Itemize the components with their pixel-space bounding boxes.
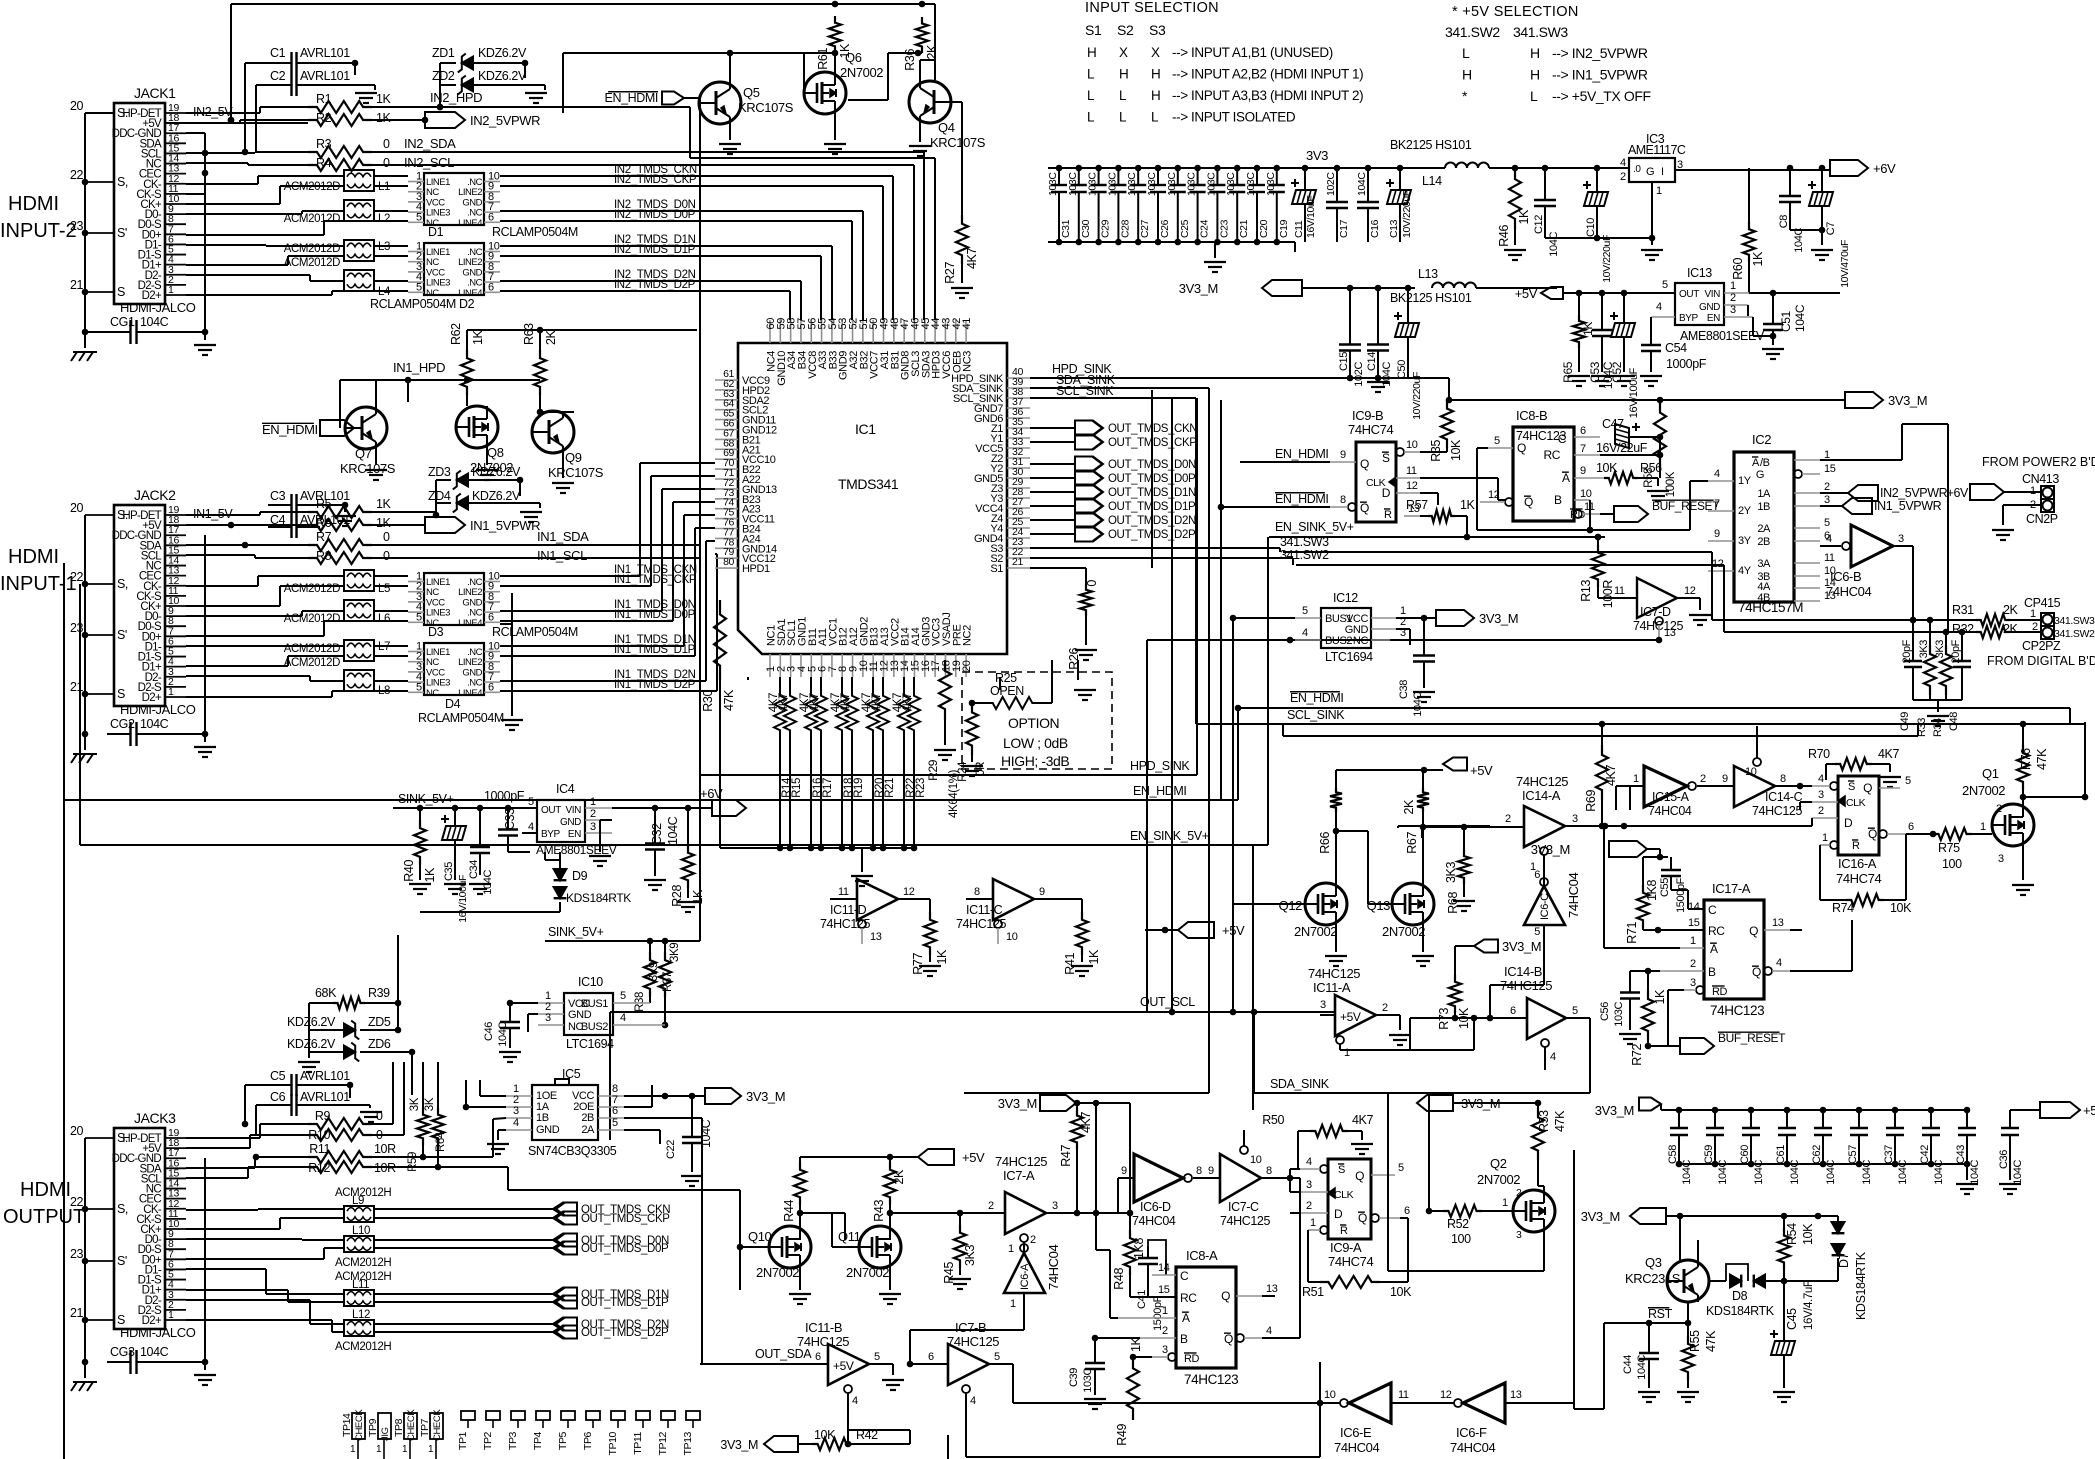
svg-text:0: 0 (376, 1109, 383, 1123)
wire IC11-B ctrl to R42 node (845, 1412, 852, 1447)
wire IC8-A A (1096, 1213, 1118, 1318)
wire IC16-A CLK wire (1800, 802, 1812, 810)
choke L6 ACM2012D (284, 600, 390, 625)
svg-text:IN1_SCL: IN1_SCL (537, 548, 587, 563)
net flag BUF_RESET at IC17 (1668, 1031, 1786, 1054)
svg-text:H: H (1087, 45, 1096, 60)
svg-text:10: 10 (1745, 766, 1757, 778)
capacitor CG2 104C (107, 717, 208, 746)
svg-text:R70: R70 (1808, 747, 1830, 761)
svg-text:KDS184RTK: KDS184RTK (566, 891, 631, 905)
svg-text:IC11-A: IC11-A (1313, 980, 1351, 995)
svg-text:R56: R56 (1640, 461, 1662, 475)
svg-text:10V/220uF: 10V/220uF (1601, 235, 1613, 283)
svg-text:2: 2 (1818, 805, 1824, 817)
net flag 3V3_M at Q2 (1417, 1095, 1541, 1111)
svg-text:3: 3 (1306, 1179, 1312, 1191)
svg-text:CHECK: CHECK (354, 1409, 365, 1441)
svg-text:H: H (1151, 88, 1160, 103)
svg-text:74HC04: 74HC04 (1132, 1214, 1176, 1228)
svg-text:4K7: 4K7 (1079, 1112, 1093, 1133)
svg-text:5: 5 (1534, 926, 1540, 938)
label IN1_SDA (537, 529, 589, 544)
wire R4 to IC1 (372, 165, 914, 320)
svg-text:341.SW3: 341.SW3 (1280, 535, 1329, 549)
resistor R6 1K (308, 516, 392, 531)
svg-text:4K7: 4K7 (1604, 765, 1618, 786)
wire IC5 right pins (624, 1085, 702, 1364)
svg-text:G: G (1646, 166, 1654, 178)
svg-text:5: 5 (1494, 435, 1500, 447)
svg-text:0: 0 (1085, 580, 1099, 587)
svg-text:1: 1 (1502, 1197, 1508, 1209)
resistor R37 3K9 (659, 941, 681, 1028)
svg-text:104C: 104C (1861, 1160, 1873, 1185)
IC IC3 AME1117C (1620, 132, 1830, 197)
svg-text:ZD2: ZD2 (432, 69, 455, 83)
label OPTION LOW 0dB HIGH -3dB (1001, 715, 1069, 769)
svg-text:1: 1 (1008, 1243, 1014, 1255)
svg-text:H: H (1462, 67, 1472, 83)
resistor R69 4K7 (1584, 724, 1618, 829)
svg-text:R29: R29 (926, 759, 940, 781)
svg-text:D4: D4 (445, 697, 461, 711)
svg-text:104C: 104C (140, 1345, 169, 1359)
capacitor C55 1500pF (1659, 857, 1704, 913)
label EN_HDMI lower (64, 563, 1238, 800)
svg-text:CP2PZ: CP2PZ (2022, 639, 2061, 653)
svg-text:LINE4: LINE4 (458, 218, 482, 229)
label IN1_5V (193, 507, 233, 521)
svg-text:103C: 103C (1613, 1002, 1625, 1027)
svg-text:3K3: 3K3 (963, 1245, 977, 1266)
svg-text:INPUT-2: INPUT-2 (0, 220, 77, 242)
svg-text:5: 5 (416, 211, 422, 223)
svg-text:S': S' (117, 226, 127, 240)
resistor R63 2K (522, 323, 558, 395)
svg-text:104C: 104C (1356, 172, 1368, 196)
buffer IC11-D 74HC125 (820, 879, 930, 944)
IC IC2 74HC157M (1708, 432, 1836, 615)
resistor R70 4K7 (1808, 747, 1901, 787)
capacitor C53 104C (1588, 293, 1615, 389)
svg-text:IC1: IC1 (855, 421, 876, 437)
svg-text:C33: C33 (503, 808, 517, 830)
svg-text:C49: C49 (1899, 712, 1911, 731)
clamp diode D3 RCLAMP0504M (408, 571, 578, 640)
svg-text:2: 2 (1996, 803, 2002, 815)
svg-text:8: 8 (1780, 773, 1786, 785)
resistor R68 3K3 (1444, 827, 1475, 914)
svg-text:6: 6 (1908, 821, 1914, 833)
resistor R7 0 (308, 530, 390, 551)
svg-text:Q: Q (1224, 1332, 1233, 1346)
svg-text:C13: C13 (1388, 219, 1400, 238)
resistor R29 4K64(1%) (926, 660, 960, 818)
svg-text:1: 1 (1822, 832, 1828, 844)
svg-text:2: 2 (1162, 1325, 1168, 1337)
zener ZD4 KDZ6.2V (428, 489, 540, 512)
svg-text:S: S (117, 1313, 125, 1327)
svg-text:OUT_TMDS_D2P: OUT_TMDS_D2P (581, 1327, 669, 1339)
label IN2_5V (165, 105, 308, 123)
text FROM DIGITAL B'D (1987, 654, 2095, 668)
svg-text:74HC74: 74HC74 (1836, 871, 1881, 886)
svg-text:R46: R46 (1497, 225, 1511, 247)
svg-text:SN74CB3Q3305: SN74CB3Q3305 (528, 1144, 617, 1158)
diode D9 KDS184RTK (420, 852, 631, 912)
capacitor bank C19-C31 103C on 3V3 (1047, 165, 1295, 246)
svg-text:20pF: 20pF (1901, 639, 1913, 663)
wire top rail (228, 4, 935, 123)
svg-text:1K: 1K (376, 92, 392, 106)
svg-text:C28: C28 (1119, 219, 1131, 238)
wire R62 R63 tops (467, 327, 697, 350)
svg-text:2: 2 (1730, 292, 1736, 304)
svg-text:10: 10 (1250, 1154, 1262, 1166)
label HDMI INPUT-2 (0, 193, 77, 242)
wire IC7-C to IC9-A S (1226, 1169, 1300, 1178)
diode D7 KDS184RTK (1784, 1216, 1868, 1320)
svg-text:C20: C20 (1258, 219, 1270, 238)
svg-text:R50: R50 (1262, 1113, 1284, 1127)
net flag 3V3_M at R42 (720, 1436, 812, 1452)
svg-text:IN2_SDA: IN2_SDA (404, 136, 456, 151)
svg-text:4B: 4B (1757, 592, 1770, 604)
svg-text:S: S (1338, 1164, 1345, 1176)
svg-text:EN_HDMI: EN_HDMI (605, 91, 658, 105)
svg-text:VIN: VIN (566, 805, 582, 816)
svg-text:1000pF: 1000pF (1666, 357, 1707, 371)
transistor Q4 KRC107S (909, 81, 986, 150)
svg-text:2N7002: 2N7002 (1962, 783, 2005, 798)
svg-text:2: 2 (590, 808, 596, 820)
svg-text:SINK_5V+: SINK_5V+ (398, 792, 454, 806)
resistor R59 3K (407, 1062, 429, 1172)
svg-text:R31: R31 (1952, 603, 1974, 617)
capacitor C5 AVRL101 (268, 1069, 353, 1096)
svg-text:1: 1 (402, 1444, 408, 1455)
svg-text:2K: 2K (1402, 799, 1416, 815)
svg-text:4K7: 4K7 (871, 693, 883, 712)
svg-text:0R: 0R (975, 762, 987, 776)
capacitor C14 104C (1366, 288, 1393, 387)
svg-text:RC: RC (1543, 448, 1560, 462)
svg-text:INPUT-1: INPUT-1 (0, 573, 77, 595)
svg-text:100K: 100K (1665, 471, 1677, 497)
svg-text:L: L (1087, 67, 1095, 82)
wire jack1 SDA SCL to R3 R4 (186, 149, 308, 165)
svg-text:Q1: Q1 (1982, 766, 1999, 781)
svg-text:R39: R39 (368, 986, 390, 1000)
svg-text:10K: 10K (1449, 439, 1463, 461)
svg-text:D2+: D2+ (142, 290, 162, 302)
capacitor C49 20pF (1899, 620, 1922, 731)
wire R8 to right (372, 557, 700, 559)
svg-text:2K: 2K (2003, 603, 2019, 617)
resistor R1 1K (308, 92, 392, 113)
svg-text:Q2: Q2 (1490, 1156, 1507, 1171)
svg-text:R65: R65 (1561, 361, 1575, 383)
svg-text:NC2: NC2 (962, 625, 974, 646)
net flag +5V IC14A area (1145, 922, 1245, 938)
svg-text:IC11-D: IC11-D (830, 903, 867, 917)
resistor R38 3K9 (634, 941, 660, 1012)
capacitor C3 AVRL101 (268, 489, 356, 526)
net flag IN2_5VPWR (372, 112, 540, 128)
net flag EN_HDMI to Q5 (605, 91, 699, 105)
svg-text:4K7: 4K7 (1878, 747, 1899, 761)
wire IC17-A B from left (1630, 968, 1660, 990)
svg-text:IN1_SDA: IN1_SDA (537, 529, 589, 544)
svg-text:IC10: IC10 (578, 975, 603, 989)
buffer IC11-A 74HC125 +5V (1308, 966, 1411, 1059)
wire IC7-D out bus down (1147, 640, 1659, 1012)
svg-text:EN_HDMI: EN_HDMI (1290, 691, 1343, 705)
svg-text:CHECK: CHECK (406, 1409, 417, 1441)
transistor Q6 2N7002 (804, 50, 883, 114)
buffer IC14-A 74HC125 (1490, 774, 1605, 886)
svg-text:3K3: 3K3 (1918, 640, 1930, 659)
resistor R65 1K (1561, 293, 1595, 386)
resistor R57 1K (1406, 498, 1476, 540)
wire IC8-B B pin10 (1587, 500, 1594, 533)
svg-text:2A: 2A (581, 1124, 595, 1136)
svg-text:C45: C45 (1785, 1308, 1799, 1330)
svg-text:S1: S1 (990, 563, 1003, 575)
svg-text:SINK_5V+: SINK_5V+ (548, 925, 604, 939)
svg-text:C36: C36 (1998, 1150, 2010, 1169)
resistor R49 1K (1115, 1336, 1152, 1445)
svg-text:L: L (1151, 110, 1159, 125)
label SCL_SINK net (1030, 384, 1196, 724)
ground Q11 (879, 1268, 901, 1304)
svg-text:R13: R13 (1579, 580, 1593, 602)
wire bottom frame lines (64, 98, 1209, 1459)
resistor R54 10K (1778, 1216, 1815, 1281)
svg-text:1: 1 (1730, 280, 1736, 292)
svg-text:TP13: TP13 (682, 1431, 694, 1455)
svg-text:2: 2 (1306, 1200, 1312, 1212)
svg-text:AVRL101: AVRL101 (300, 1069, 350, 1083)
capacitor C50 10V/220uF (1394, 288, 1423, 420)
clamp diode D4 RCLAMP0504M (408, 641, 504, 726)
buffer IC7-B 74HC125 (907, 1320, 1013, 1412)
ground Q12 (1325, 925, 1347, 966)
svg-text:12: 12 (903, 886, 915, 898)
svg-text:LTC1694: LTC1694 (1325, 650, 1373, 664)
svg-text:OUT_SDA: OUT_SDA (755, 1347, 812, 1361)
svg-text:5: 5 (416, 281, 422, 293)
svg-text:16V/10uF: 16V/10uF (1305, 196, 1317, 238)
svg-text:R62: R62 (449, 323, 463, 345)
svg-text:2Y: 2Y (1738, 505, 1752, 517)
IC IC8-B 74HC123 (1480, 408, 1608, 521)
svg-text:Q: Q (1749, 924, 1758, 938)
wire R3 to IC1 (372, 152, 924, 320)
ground Q1 (2012, 846, 2034, 895)
svg-text:--> IN2_5VPWR: --> IN2_5VPWR (1552, 45, 1648, 61)
svg-text:4: 4 (1306, 1156, 1312, 1168)
svg-text:S: S (1848, 781, 1855, 793)
wire long vertical buses (1152, 390, 1268, 1110)
svg-text:47K: 47K (1704, 1330, 1718, 1352)
svg-text:10: 10 (1006, 931, 1018, 943)
svg-text:74HC125: 74HC125 (1220, 1214, 1270, 1228)
svg-text:C58: C58 (1667, 1145, 1679, 1164)
zener ZD2 KDZ6.2V (432, 69, 545, 94)
svg-text:3V3: 3V3 (1306, 148, 1328, 163)
svg-text:ACM2012D: ACM2012D (284, 583, 340, 595)
capacitor C51 104C (1762, 293, 1807, 359)
svg-text:4: 4 (620, 1012, 626, 1024)
svg-text:4: 4 (528, 821, 534, 833)
svg-text:IC6-D: IC6-D (1140, 1200, 1171, 1214)
svg-text:RD: RD (1712, 986, 1728, 998)
svg-text:4: 4 (1266, 1325, 1272, 1337)
svg-text:ACM2012D: ACM2012D (284, 243, 340, 255)
svg-text:104C: 104C (1717, 1160, 1729, 1185)
capacitor CG1 104C (107, 315, 208, 344)
svg-text:23: 23 (70, 1247, 84, 1261)
svg-text:AME1117C: AME1117C (1628, 143, 1686, 157)
svg-text:3: 3 (590, 821, 596, 833)
svg-text:+5V: +5V (2083, 1103, 2095, 1118)
svg-text:R10: R10 (308, 1128, 330, 1142)
inverter IC6-C 74HC04 up (1524, 869, 1581, 985)
svg-text:C53: C53 (1588, 361, 1602, 383)
svg-text:S3: S3 (1149, 22, 1166, 38)
svg-text:A: A (1710, 942, 1718, 956)
svg-text:R17: R17 (822, 778, 834, 798)
svg-text:15: 15 (1688, 917, 1700, 929)
svg-text:3V3_M: 3V3_M (720, 1438, 758, 1452)
svg-text:FROM POWER2 B'D: FROM POWER2 B'D (1982, 455, 2095, 469)
resistor R43 2K (872, 1157, 906, 1240)
svg-text:Q: Q (1360, 457, 1369, 471)
svg-text:0: 0 (383, 530, 390, 544)
net flag EN_HDMI to Q7 (262, 420, 354, 437)
label EN_HDMI at IC9-B (1240, 447, 1330, 462)
svg-text:NC.: NC. (426, 688, 441, 699)
svg-text:CG1: CG1 (110, 315, 135, 329)
net flag +6V at IC4 (589, 786, 746, 866)
svg-text:R52: R52 (1447, 1217, 1469, 1231)
svg-text:21: 21 (70, 1306, 84, 1320)
svg-text:23: 23 (70, 621, 84, 635)
svg-text:A: A (1562, 471, 1570, 485)
svg-text:8: 8 (1266, 1165, 1272, 1177)
svg-text:74HC125: 74HC125 (1752, 804, 1802, 818)
transistor Q1 2N7002 (1962, 766, 2034, 865)
svg-text:ACM2012H: ACM2012H (335, 1257, 391, 1269)
svg-text:74HC125: 74HC125 (956, 917, 1006, 931)
svg-text:10: 10 (1406, 439, 1418, 451)
svg-text:2K: 2K (544, 329, 558, 345)
svg-text:16V/100uF: 16V/100uF (457, 875, 469, 923)
svg-text:1K: 1K (1751, 251, 1765, 267)
wire Q5 collector rail (563, 50, 838, 113)
svg-text:Q5: Q5 (743, 85, 760, 100)
svg-text:10K: 10K (1801, 1223, 1815, 1245)
resistor R28 1K (670, 805, 705, 912)
IC IC9-B 74HC74 (1330, 408, 1420, 522)
net flag 3V3_M at Q3 (1581, 1208, 1838, 1224)
svg-text:104C: 104C (140, 717, 169, 731)
svg-text:104C: 104C (497, 1022, 509, 1047)
svg-text:HPD_SINK: HPD_SINK (1130, 759, 1190, 773)
svg-text:+5V: +5V (962, 1150, 985, 1165)
svg-text:JIG: JIG (380, 1427, 391, 1441)
transistor Q12 2N7002 (1279, 883, 1347, 939)
wire JACK1 pin rows to ground rail (186, 133, 205, 194)
ground IC1 bottom right pins (1000, 660, 1096, 700)
ground C49 R33 R34 C48 (1913, 700, 1962, 726)
svg-text:10K: 10K (1890, 901, 1912, 915)
svg-text:C39: C39 (1068, 1368, 1080, 1387)
connector CN413 CN2P (1992, 472, 2059, 540)
svg-text:R15: R15 (791, 778, 803, 798)
svg-text:R38: R38 (634, 992, 646, 1012)
resistor R52 100 (1426, 1093, 1513, 1246)
svg-text:5: 5 (528, 796, 534, 808)
svg-text:C57: C57 (1847, 1145, 1859, 1164)
svg-text:S1: S1 (1085, 22, 1102, 38)
svg-text:3: 3 (1690, 977, 1696, 989)
net flag IN1_5VPWR right (1820, 498, 1942, 514)
resistor R2 1K (308, 111, 392, 126)
svg-text:5: 5 (416, 611, 422, 623)
svg-text:ZD6: ZD6 (368, 1037, 391, 1051)
ground Q10 (789, 1268, 811, 1304)
svg-text:103C: 103C (1245, 172, 1257, 196)
svg-text:ZD1: ZD1 (432, 46, 455, 60)
svg-text:IN2_5VPWR: IN2_5VPWR (1880, 486, 1948, 500)
svg-text:L: L (1087, 88, 1095, 103)
label SDA_SINK net (1030, 373, 1209, 1093)
svg-text:BUF_RESET: BUF_RESET (1718, 1031, 1786, 1045)
label IN2_SCL (404, 155, 454, 170)
svg-text:13: 13 (1510, 1389, 1522, 1401)
resistor R25 OPEN (969, 660, 1052, 709)
svg-text:74HC74: 74HC74 (1328, 1254, 1373, 1269)
inverter IC6-B 74HC04 (1820, 525, 1916, 623)
svg-text:OUTPUT: OUTPUT (3, 1206, 85, 1228)
inductor L14 BK2125 HS101 (1390, 138, 1489, 188)
label IN2_SDA (404, 136, 456, 151)
zener ZD1 KDZ6.2V (432, 46, 528, 72)
wire R66/R67 row to IC14-A (1398, 823, 1720, 838)
svg-text:R64: R64 (435, 1131, 447, 1152)
svg-text:R71: R71 (1625, 922, 1639, 944)
svg-text:3: 3 (1818, 789, 1824, 801)
svg-text:3Y: 3Y (1738, 535, 1752, 547)
capacitor C35 16V/100uF (441, 808, 469, 923)
svg-text:47K: 47K (1553, 1110, 1567, 1132)
wire RST route (1574, 1320, 1652, 1409)
chassis ground CG3 (71, 1382, 97, 1391)
svg-text:KDZ6.2V: KDZ6.2V (478, 69, 527, 83)
svg-text:12: 12 (1406, 480, 1418, 492)
ground cap bank (1204, 242, 1295, 272)
svg-text:74HC74: 74HC74 (1348, 422, 1393, 437)
svg-text:+6V: +6V (1947, 486, 1969, 500)
label 3V3 (1306, 148, 1328, 163)
svg-text:5: 5 (1398, 1162, 1404, 1174)
svg-text:100: 100 (1451, 1232, 1471, 1246)
svg-text:+6V: +6V (700, 786, 723, 801)
svg-text:74HC125: 74HC125 (797, 1334, 849, 1349)
